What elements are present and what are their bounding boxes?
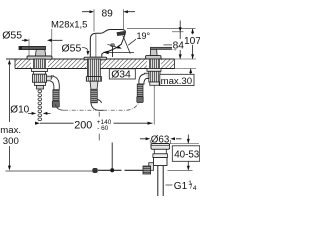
side port right valve (145, 73, 149, 78)
deck top line (6, 58, 175, 60)
deck extension lines right (175, 58, 197, 60)
spout hose curve to right (91, 99, 104, 110)
counter deck hatch right segment (161, 59, 175, 69)
svg-text:Ø10: Ø10 (10, 105, 29, 116)
braided hose right valve (137, 84, 143, 97)
dim 84 text (164, 44, 173, 46)
hose nipple left valve (37, 86, 44, 90)
dim max.30 arrow (190, 69, 192, 75)
drain neck (154, 149, 166, 154)
body left valve (34, 72, 46, 75)
dim Ø63 extension ticks (149, 140, 151, 144)
pop-up horizontal rod (98, 169, 143, 171)
dim 84 line (179, 21, 181, 60)
stem left valve (35, 50, 45, 56)
dim 107 line (192, 29, 194, 59)
drain upper body (153, 154, 168, 158)
svg-text:84: 84 (173, 41, 185, 52)
stem right valve (150, 49, 157, 55)
counter deck hatch third segment (101, 59, 147, 69)
dim 84 extension line (172, 31, 184, 33)
hose end fitting left valve (52, 101, 59, 107)
centreline ticks at spout axis (98, 112, 100, 141)
pop-up pull rod (111, 143, 113, 171)
hose end fitting right valve (137, 97, 143, 103)
svg-text:40-53: 40-53 (174, 149, 200, 160)
svg-text:Ø55: Ø55 (62, 42, 82, 54)
label G1 1/4 (166, 184, 173, 186)
extension line from right valve centre (153, 86, 155, 125)
locknut right valve (147, 69, 161, 72)
spout hose fitting (90, 81, 98, 89)
counter deck hatch left segment (15, 59, 31, 69)
dim 40-53 arrows (187, 135, 189, 144)
lower nut left valve (35, 82, 46, 85)
svg-text:200: 200 (74, 120, 92, 132)
spout shank nut (86, 77, 101, 82)
dim max.30 box (160, 74, 194, 85)
spout threaded shank (88, 59, 101, 77)
svg-text:M28x1,5: M28x1,5 (51, 19, 87, 30)
svg-text:G1: G1 (174, 181, 188, 192)
hose routing centreline dash-dot (55, 105, 64, 111)
dim 40-53 extension line (170, 143, 199, 145)
counter deck hatch second segment (48, 59, 87, 69)
elbow left valve (50, 76, 59, 89)
rod knurled nut (143, 166, 151, 174)
lever handle right valve (150, 47, 176, 50)
dim 40-53 box (172, 146, 199, 162)
drain flange (151, 144, 170, 150)
dim Ø55 left arrows (22, 39, 63, 41)
deck right edge (174, 59, 176, 69)
dim Ø10 arrows (28, 112, 51, 114)
pop-up rod left knob (92, 168, 98, 173)
locknut left valve (32, 69, 48, 72)
side port left valve (47, 76, 52, 81)
svg-text:107: 107 (184, 36, 200, 47)
lower nut right valve (150, 82, 159, 85)
svg-text:19°: 19° (137, 31, 151, 41)
svg-text:89: 89 (102, 9, 114, 20)
svg-text:300: 300 (3, 136, 19, 147)
dim 89 lines and arrows (82, 11, 135, 13)
max.300 bottom reference line (6, 170, 96, 172)
drain tailpipe (158, 166, 163, 197)
label Ø34 box (109, 69, 135, 79)
dim Ø55 left extension lines (28, 39, 30, 56)
svg-text:4: 4 (193, 185, 197, 192)
svg-text:Ø34: Ø34 (111, 70, 131, 81)
svg-text:max.: max. (0, 125, 21, 136)
rosette right valve (146, 56, 161, 59)
elbow right valve (139, 74, 148, 84)
svg-text:/: / (190, 183, 192, 190)
spout body (90, 30, 125, 58)
rosette left valve (27, 56, 52, 59)
dim 107 extension line (127, 28, 196, 30)
svg-text:- 60: - 60 (97, 125, 108, 132)
svg-text:Ø55: Ø55 (2, 29, 22, 41)
spout braided hose (91, 89, 98, 103)
dim Ø55 spout hook leader (82, 48, 88, 51)
braided hose left valve (53, 90, 59, 101)
lever handle left valve (19, 46, 46, 50)
body right valve (149, 71, 160, 82)
shank left valve through deck (34, 59, 46, 69)
deck bottom line (15, 68, 175, 70)
pop-up knob behind spout (111, 44, 115, 47)
dim 107 text (183, 34, 200, 45)
drain body (154, 158, 168, 166)
cartridge housing left valve (33, 74, 47, 82)
aerator (117, 31, 125, 35)
shank right valve through deck (150, 59, 160, 69)
deck left edge (14, 59, 16, 69)
spout escutcheon (84, 57, 107, 60)
spout inner edge line (95, 34, 97, 57)
dim 200 line (40, 122, 153, 124)
dim Ø63 arrows (140, 138, 182, 140)
dashed flex hose left valve (38, 90, 42, 121)
dim 89 extension lines (93, 9, 95, 31)
svg-text:max.30: max.30 (161, 76, 192, 87)
dim max.300 line (8, 65, 10, 167)
drain side port (149, 163, 154, 171)
